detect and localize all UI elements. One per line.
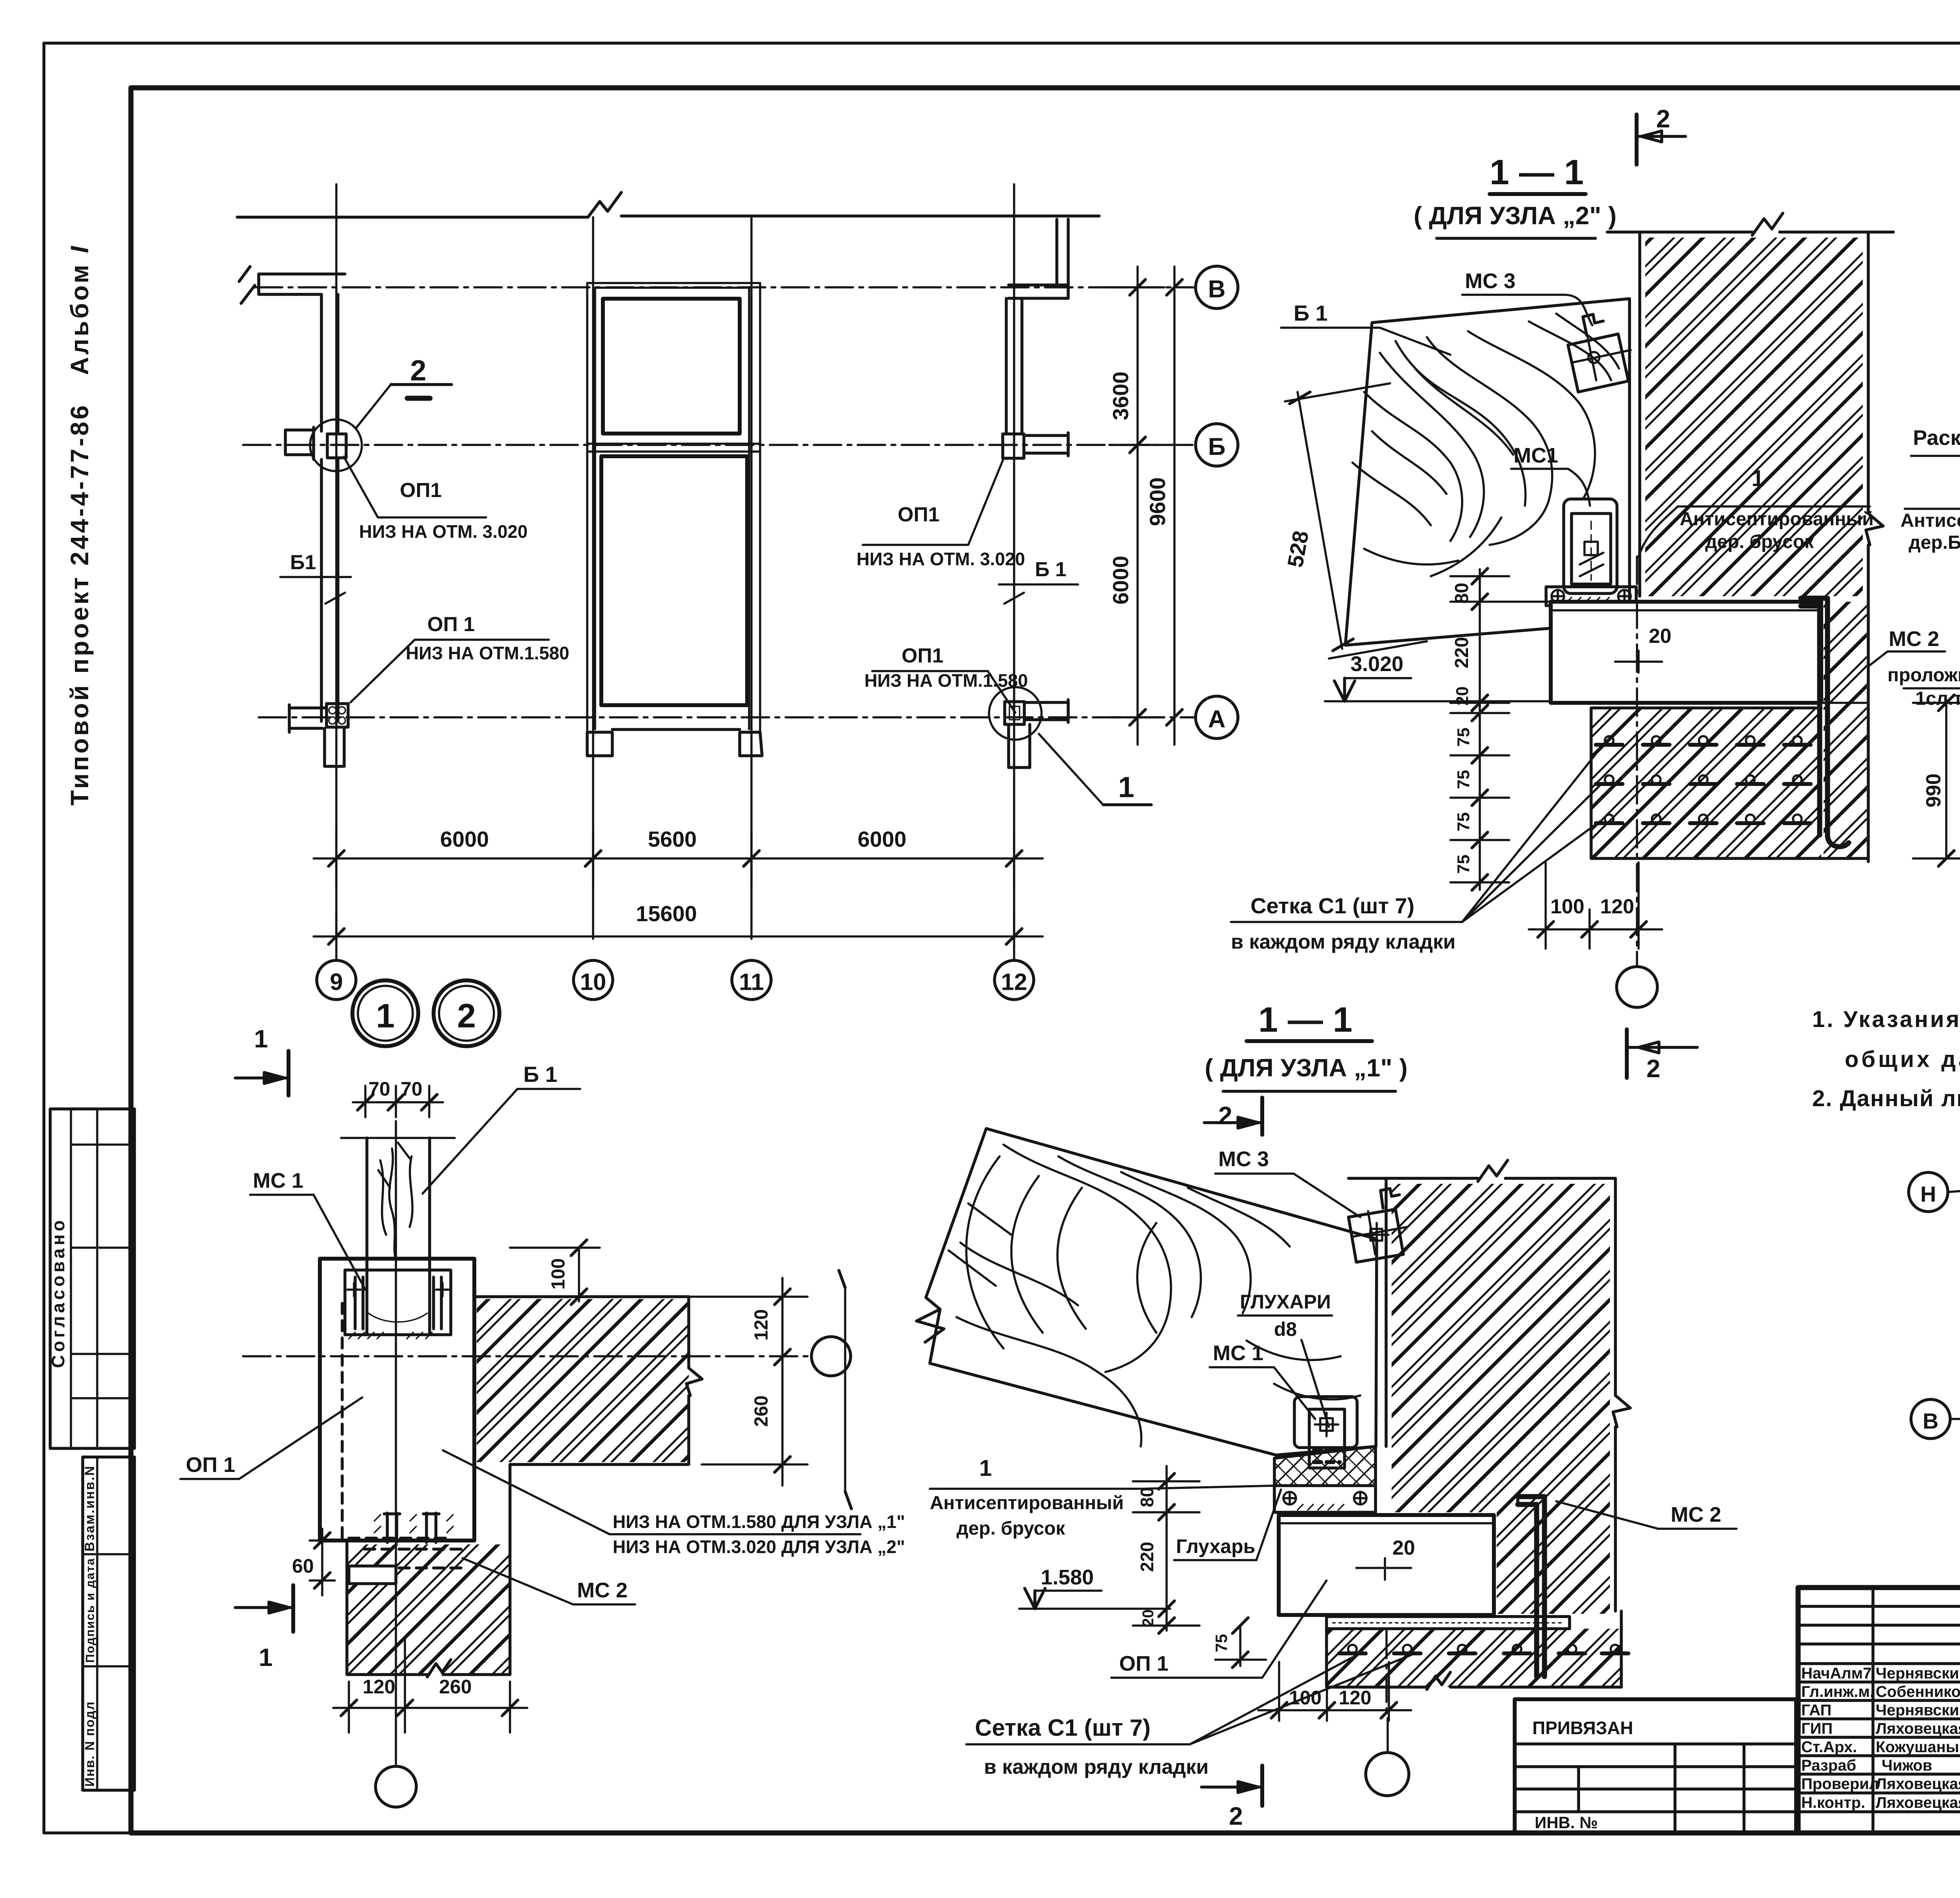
svg-text:260: 260 — [439, 1676, 472, 1698]
axis bubble Н — [1909, 1172, 1960, 1212]
wall axis 12 В to Б — [1006, 298, 1022, 434]
label ОП1 — [1111, 1580, 1327, 1678]
svg-text:75: 75 — [1212, 1634, 1230, 1652]
svg-text:НИЗ НА ОТМ.1.580: НИЗ НА ОТМ.1.580 — [864, 670, 1028, 691]
section flag 1 top — [235, 1025, 289, 1096]
beam label Б1 top — [1281, 301, 1450, 355]
svg-text:МС 3: МС 3 — [1465, 269, 1515, 293]
svg-text:990: 990 — [1922, 773, 1945, 807]
svg-text:Ст.Арх.: Ст.Арх. — [1801, 1738, 1857, 1756]
central shaft inner lower room — [601, 456, 747, 705]
svg-text:Б 1: Б 1 — [1294, 301, 1328, 325]
МС2 hidden plate dashed — [349, 1513, 463, 1584]
staff names column — [1801, 1665, 1960, 1811]
axis line 11 — [750, 217, 753, 939]
axis bubble 9 — [317, 960, 356, 1000]
right dimension line 3600-6000 — [1108, 267, 1164, 745]
svg-text:НИЗ НА ОТМ. 3.020: НИЗ НА ОТМ. 3.020 — [359, 521, 528, 542]
label 1 антисептированный брусок — [1639, 466, 1874, 557]
anchor assembly МС1 — [1294, 1397, 1357, 1468]
label ОП1 НИЗ НА ОТМ.3.020 left — [344, 457, 528, 542]
svg-text:в каждом ряду кладки: в каждом ряду кладки — [1231, 931, 1455, 953]
steel angle МС2 — [1518, 1497, 1544, 1677]
svg-text:НИЗ НА ОТМ. 3.020: НИЗ НА ОТМ. 3.020 — [857, 549, 1025, 569]
svg-text:1.580: 1.580 — [1041, 1566, 1094, 1589]
svg-text:1 — 1: 1 — 1 — [1258, 1000, 1352, 1040]
title block grid — [1798, 1588, 1960, 1833]
elevation 3.020 — [1325, 652, 1551, 701]
label ОП1 НИЗ НА ОТМ.1.580 right — [864, 644, 1028, 713]
stub wall right of node Б-12 — [1024, 433, 1068, 456]
svg-text:120: 120 — [1339, 1687, 1371, 1709]
svg-text:9: 9 — [330, 969, 343, 995]
svg-text:12: 12 — [1001, 969, 1027, 995]
svg-text:( ДЛЯ УЗЛА „1" ): ( ДЛЯ УЗЛА „1" ) — [1205, 1054, 1408, 1082]
mesh hooks row 3 — [1596, 815, 1811, 823]
svg-text:10: 10 — [580, 969, 606, 995]
svg-text:220: 220 — [1452, 637, 1472, 668]
svg-text:Расклинить: Расклинить — [1913, 426, 1960, 450]
svg-text:дер. брусок: дер. брусок — [956, 1518, 1065, 1539]
roof edge line — [237, 216, 1099, 217]
left margin inventory table — [82, 1457, 134, 1790]
title 1-1 — [1490, 153, 1586, 194]
node Б-9 pad — [327, 434, 346, 458]
svg-text:Н: Н — [1920, 1182, 1936, 1207]
svg-text:75: 75 — [1454, 812, 1473, 831]
node Б-12 pad — [1003, 434, 1024, 458]
svg-text:Чернявский: Чернявский — [1876, 1665, 1960, 1682]
beam Б1 body — [926, 1129, 1377, 1455]
wall outline — [1348, 1178, 1615, 1611]
svg-text:НачАлм7: НачАлм7 — [1801, 1665, 1872, 1682]
wall below node А-9 — [325, 727, 344, 766]
dim 60 — [292, 1529, 335, 1595]
svg-text:ОП1: ОП1 — [400, 479, 442, 502]
svg-text:6000: 6000 — [858, 827, 907, 851]
lower masonry with mesh — [1551, 703, 1868, 858]
label МС1 — [250, 1169, 365, 1290]
section flag 1 bottom — [235, 1585, 293, 1671]
label 1 антисептированный брусок — [930, 1455, 1276, 1539]
callout 2 label — [356, 354, 452, 428]
label Б1 — [423, 1062, 580, 1194]
wall upper run hatched — [474, 1297, 702, 1542]
svg-text:Чернявский: Чернявский — [1876, 1702, 1960, 1719]
svg-text:Гл.инж.м.: Гл.инж.м. — [1801, 1683, 1874, 1700]
axis line Б — [243, 444, 1195, 446]
vertical dim chain — [1133, 1466, 1200, 1633]
axis bubble В — [1196, 266, 1238, 308]
axis bubble 12 — [995, 960, 1034, 1000]
svg-text:МС 2: МС 2 — [1671, 1503, 1721, 1526]
label 1 антисептированный брусок left — [1900, 482, 1960, 553]
svg-text:НИЗ НА ОТМ.1.580: НИЗ НА ОТМ.1.580 — [406, 643, 569, 663]
subtitle (для узла 1) — [1205, 1054, 1408, 1091]
centre line horizontal with axis bubble — [243, 1337, 851, 1376]
svg-text:15600: 15600 — [636, 901, 697, 926]
svg-text:ПРИВЯЗАН: ПРИВЯЗАН — [1532, 1718, 1633, 1738]
masonry right of pad — [1824, 602, 1867, 858]
svg-text:Согласовано: Согласовано — [48, 1217, 68, 1368]
masonry wall hatched — [1392, 1184, 1610, 1512]
break at wall end left — [239, 267, 255, 303]
svg-text:5600: 5600 — [648, 827, 697, 851]
axis bubble Б — [1196, 424, 1238, 466]
svg-text:2: 2 — [410, 354, 426, 387]
svg-text:60: 60 — [292, 1555, 314, 1577]
svg-text:Проверил: Проверил — [1801, 1775, 1879, 1793]
svg-text:Собенников: Собенников — [1876, 1683, 1960, 1700]
svg-text:9600: 9600 — [1145, 477, 1170, 526]
centre line vertical — [395, 1121, 397, 1764]
svg-text:Чижов: Чижов — [1882, 1757, 1932, 1774]
axis line 9 — [335, 184, 338, 939]
wall stub above В at axis 12 — [1057, 219, 1068, 285]
break symbol on roof edge — [588, 192, 621, 217]
label ОП1 НИЗ НА ОТМ.1.580 left — [350, 613, 569, 702]
label МС2 — [463, 1558, 635, 1604]
break symbol on wall top — [1478, 1160, 1508, 1181]
axis bubble В — [1911, 1399, 1960, 1439]
svg-text:В: В — [1208, 276, 1226, 303]
label МС2 проложить 1сл.толя — [1868, 627, 1960, 709]
label Сетка С1 шт7 — [966, 1655, 1411, 1778]
axis line В — [255, 286, 1195, 289]
big node mark 2 — [434, 980, 499, 1046]
support pad ОП1 — [1551, 602, 1821, 703]
wall axis 9 between Б and А — [321, 459, 338, 721]
axis line 12 — [1013, 184, 1015, 939]
wall lower run hatched — [347, 1542, 510, 1677]
svg-text:80: 80 — [1137, 1487, 1157, 1507]
svg-text:120: 120 — [1600, 895, 1634, 918]
svg-text:d8: d8 — [1274, 1318, 1297, 1340]
svg-text:ОП1: ОП1 — [898, 503, 940, 526]
dim 75 — [1212, 1618, 1266, 1668]
break jag on wall right edge — [1866, 514, 1883, 545]
svg-text:ГИП: ГИП — [1801, 1720, 1833, 1737]
svg-text:Разраб: Разраб — [1801, 1757, 1856, 1774]
svg-text:дер. брусок: дер. брусок — [1705, 532, 1814, 552]
svg-text:120: 120 — [363, 1676, 395, 1698]
title 1-1 — [1247, 1000, 1372, 1041]
svg-text:2: 2 — [457, 997, 476, 1035]
svg-text:Б: Б — [1208, 434, 1226, 461]
svg-text:дер.Брусок: дер.Брусок — [1909, 532, 1960, 553]
section flag 2 bottom — [1627, 1029, 1697, 1083]
svg-text:Ляховецкая: Ляховецкая — [1876, 1720, 1960, 1737]
svg-text:В: В — [1923, 1409, 1938, 1433]
svg-text:ИНВ. №: ИНВ. № — [1535, 1813, 1598, 1832]
dim 100 right — [510, 1240, 600, 1305]
label Глухарь — [1174, 1490, 1281, 1560]
label МС2 — [1556, 1501, 1737, 1529]
attached table — [1515, 1699, 1796, 1833]
МС1 plate in plan — [345, 1270, 451, 1339]
МС3 plate on beam — [1568, 314, 1631, 392]
title block outer — [1798, 1588, 1960, 1833]
svg-text:1. Указания по монтажу бал: 1. Указания по монтажу балок даны в лист… — [1812, 1007, 1960, 1032]
dimension line 6000-5600-6000 — [314, 827, 1043, 886]
svg-text:80: 80 — [1452, 583, 1472, 604]
detail circle at node Б-9 — [310, 419, 362, 471]
svg-text:Сетка С1 (шт 7): Сетка С1 (шт 7) — [975, 1715, 1151, 1741]
svg-text:11: 11 — [739, 969, 764, 995]
anchor assembly МС1 — [1564, 499, 1617, 593]
svg-text:1: 1 — [1751, 466, 1764, 491]
dim 990 — [1913, 695, 1960, 866]
svg-text:НИЗ НА ОТМ.3.020 ДЛЯ УЗЛА „2": НИЗ НА ОТМ.3.020 ДЛЯ УЗЛА „2" — [613, 1537, 905, 1557]
svg-text:Ляховецкая: Ляховецкая — [1876, 1794, 1960, 1811]
svg-text:МС 1: МС 1 — [253, 1169, 303, 1192]
svg-text:2: 2 — [1656, 105, 1670, 133]
svg-text:Б 1: Б 1 — [1035, 558, 1067, 581]
label ОП1 — [180, 1397, 362, 1479]
svg-text:Антисептированный: Антисептированный — [930, 1493, 1124, 1513]
svg-text:Сетка С1 (шт 7): Сетка С1 (шт 7) — [1250, 893, 1414, 918]
svg-text:МС 2: МС 2 — [577, 1579, 628, 1602]
beam Б1 body — [1345, 299, 1630, 645]
label МС1 — [1210, 1341, 1315, 1419]
svg-text:75: 75 — [1454, 770, 1473, 789]
svg-text:ОП1: ОП1 — [902, 644, 944, 667]
axis line А — [259, 716, 1195, 719]
central shaft inner upper room — [603, 299, 740, 434]
dim 528 along beam cut — [1283, 383, 1427, 659]
svg-text:6000: 6000 — [1108, 556, 1133, 605]
beam wood grain — [949, 1145, 1360, 1446]
subtitle (для узла 2) — [1414, 201, 1617, 238]
svg-text:1 — 1: 1 — 1 — [1490, 153, 1584, 192]
svg-text:220: 220 — [1137, 1542, 1157, 1572]
svg-text:75: 75 — [1454, 728, 1473, 747]
svg-text:( ДЛЯ УЗЛА „2" ): ( ДЛЯ УЗЛА „2" ) — [1414, 201, 1617, 230]
label МС3 — [1215, 1147, 1360, 1217]
stub wall left of node Б-9 — [285, 427, 314, 459]
left margin approval table — [48, 1109, 134, 1448]
beam Б1 plan — [341, 1138, 455, 1333]
svg-text:МС 3: МС 3 — [1218, 1147, 1269, 1171]
svg-text:2: 2 — [1646, 1054, 1661, 1083]
mesh hooks row 1 — [1596, 736, 1811, 745]
masonry wall hatched — [1645, 238, 1863, 596]
svg-text:70: 70 — [401, 1078, 423, 1100]
mesh hooks row 2 — [1596, 775, 1811, 784]
right dimension line 9600 — [1145, 267, 1182, 745]
axis bubble 11 — [732, 960, 771, 1000]
axis bubble А — [1196, 696, 1238, 739]
svg-text:100: 100 — [1289, 1687, 1321, 1709]
svg-text:Взам.инв.N: Взам.инв.N — [82, 1465, 97, 1551]
label Расклинить — [1911, 426, 1960, 527]
label МС1 — [1511, 444, 1590, 506]
svg-text:ОП 1: ОП 1 — [427, 613, 475, 636]
label МС3 — [1462, 269, 1592, 325]
lower masonry with mesh — [1327, 1611, 1621, 1689]
svg-text:общих данных: общих данных — [1845, 1047, 1960, 1072]
svg-text:Б 1: Б 1 — [523, 1062, 557, 1087]
break jag on wall right edge — [1613, 1395, 1630, 1427]
svg-text:А: А — [1208, 706, 1226, 733]
svg-text:1: 1 — [1118, 771, 1134, 804]
central shaft outer wall — [587, 283, 760, 732]
svg-text:Кожушаный: Кожушаный — [1876, 1738, 1960, 1756]
svg-text:МС 1: МС 1 — [1213, 1341, 1263, 1365]
label ГЛУХАРИ d8 — [1238, 1291, 1332, 1427]
svg-text:120: 120 — [751, 1309, 772, 1341]
section flag 2 top — [1637, 105, 1686, 165]
wall below node А-12 — [1009, 724, 1030, 768]
svg-text:МС1: МС1 — [1514, 444, 1558, 467]
svg-text:20: 20 — [1140, 1609, 1157, 1627]
svg-text:МС 2: МС 2 — [1889, 627, 1939, 651]
svg-text:в каждом ряду кладки: в каждом ряду кладки — [984, 1756, 1209, 1778]
mesh hooks row — [1339, 1645, 1628, 1653]
svg-text:1: 1 — [259, 1643, 273, 1671]
svg-text:1: 1 — [254, 1025, 268, 1053]
bottom dims 120 260 — [333, 1639, 527, 1733]
label ОП1 НИЗ НА ОТМ.3.020 right — [857, 459, 1025, 569]
node А-9 pad with bolts — [327, 704, 348, 727]
bottom dims 100 120 — [1258, 1662, 1411, 1721]
elevation 1.580 — [1019, 1566, 1170, 1609]
stub wall right of node А-12 — [1024, 700, 1068, 722]
section flag 2 bottom — [1201, 1766, 1262, 1830]
svg-text:3.020: 3.020 — [1350, 652, 1403, 676]
svg-text:1: 1 — [376, 997, 395, 1035]
label Сетка С1 шт7 — [1231, 746, 1602, 953]
svg-text:2: 2 — [1218, 1101, 1232, 1130]
svg-text:1сл.толя: 1сл.толя — [1915, 688, 1960, 709]
svg-text:Н.контр.: Н.контр. — [1801, 1794, 1865, 1811]
callout 1 label at node А-12 — [1039, 734, 1151, 805]
label НИЗ НА ОТМ для узла — [443, 1450, 905, 1557]
svg-text:2: 2 — [1229, 1802, 1243, 1830]
svg-text:20: 20 — [1649, 625, 1671, 648]
node А-12 pad — [1005, 702, 1024, 724]
svg-text:ОП 1: ОП 1 — [186, 1453, 235, 1477]
node outer box — [320, 1259, 474, 1541]
svg-text:2. Данный лист рассматривать: 2. Данный лист рассматривать совместно с… — [1812, 1086, 1960, 1111]
svg-text:100: 100 — [1550, 895, 1584, 918]
ОП1 hidden outline dashed — [342, 1303, 452, 1538]
svg-text:Инв. N подл: Инв. N подл — [82, 1701, 97, 1787]
dimension line 15600 — [314, 901, 1043, 960]
label Б1 right with mark — [999, 558, 1078, 604]
beam break zigzag left — [916, 1309, 944, 1363]
svg-text:Типовой проект 244-4-77-86: Типовой проект 244-4-77-86 Альбом I — [65, 244, 94, 806]
svg-text:ГАП: ГАП — [1801, 1702, 1831, 1719]
axis bubble bottom — [376, 1766, 416, 1807]
svg-text:6000: 6000 — [440, 827, 489, 851]
svg-text:Б1: Б1 — [290, 551, 316, 574]
svg-text:100: 100 — [548, 1258, 569, 1290]
svg-text:20: 20 — [1392, 1537, 1415, 1559]
svg-text:Ляховецкая: Ляховецкая — [1876, 1775, 1960, 1793]
detail circle at node А-12 — [989, 687, 1042, 740]
brusok hatched — [1274, 1446, 1376, 1512]
МС3 plate on beam — [1348, 1189, 1407, 1262]
svg-text:1: 1 — [979, 1455, 992, 1481]
svg-text:проложить: проложить — [1887, 665, 1960, 686]
svg-text:ГЛУХАРИ: ГЛУХАРИ — [1240, 1291, 1331, 1313]
wall band at В right part — [1009, 285, 1068, 298]
svg-text:Антисептированный: Антисептированный — [1900, 510, 1960, 531]
vertical dim chain left — [1450, 568, 1552, 890]
support pad ОП1 — [1279, 1515, 1494, 1615]
beam wood grain — [1352, 314, 1619, 576]
axis line and bubble — [1366, 1631, 1409, 1796]
left margin rotated stamp text — [65, 244, 94, 806]
big node mark 1 — [352, 980, 418, 1046]
svg-text:20: 20 — [1453, 686, 1472, 706]
dims 120 260 right — [689, 1270, 851, 1509]
floor slab — [1327, 1617, 1570, 1629]
wall at В left of axis 9 — [259, 274, 345, 431]
wall outline — [1607, 232, 1893, 862]
stub wall left of node А-9 — [289, 705, 327, 732]
axis line and bubble — [1617, 557, 1657, 1007]
break symbol on wall top — [1752, 213, 1783, 235]
svg-text:75: 75 — [1454, 855, 1473, 874]
svg-text:Подпись и дата: Подпись и дата — [83, 1558, 97, 1663]
svg-text:Глухарь: Глухарь — [1176, 1535, 1255, 1557]
axis bubble 10 — [573, 960, 613, 1000]
svg-text:3600: 3600 — [1108, 372, 1133, 421]
shaft bottom band with feet — [587, 729, 762, 756]
axis line 10 — [592, 217, 594, 939]
section flag 2 top — [1204, 1098, 1262, 1135]
gap dim 20 — [1356, 1537, 1415, 1580]
steel angle МС2 — [1801, 598, 1849, 847]
svg-text:260: 260 — [751, 1395, 772, 1427]
svg-text:70: 70 — [368, 1078, 390, 1100]
svg-text:НИЗ НА ОТМ.1.580 ДЛЯ УЗЛА „1": НИЗ НА ОТМ.1.580 ДЛЯ УЗЛА „1" — [613, 1512, 905, 1532]
dims 70 70 — [353, 1078, 443, 1117]
anchor base plate with bolts — [1546, 587, 1636, 606]
gap dim 20 — [1615, 625, 1671, 673]
bottom dims 100 120 — [1529, 862, 1662, 949]
label Б1 left with mark — [280, 551, 351, 604]
svg-text:Антисептированный: Антисептированный — [1680, 509, 1874, 530]
svg-text:ОП 1: ОП 1 — [1119, 1652, 1169, 1675]
